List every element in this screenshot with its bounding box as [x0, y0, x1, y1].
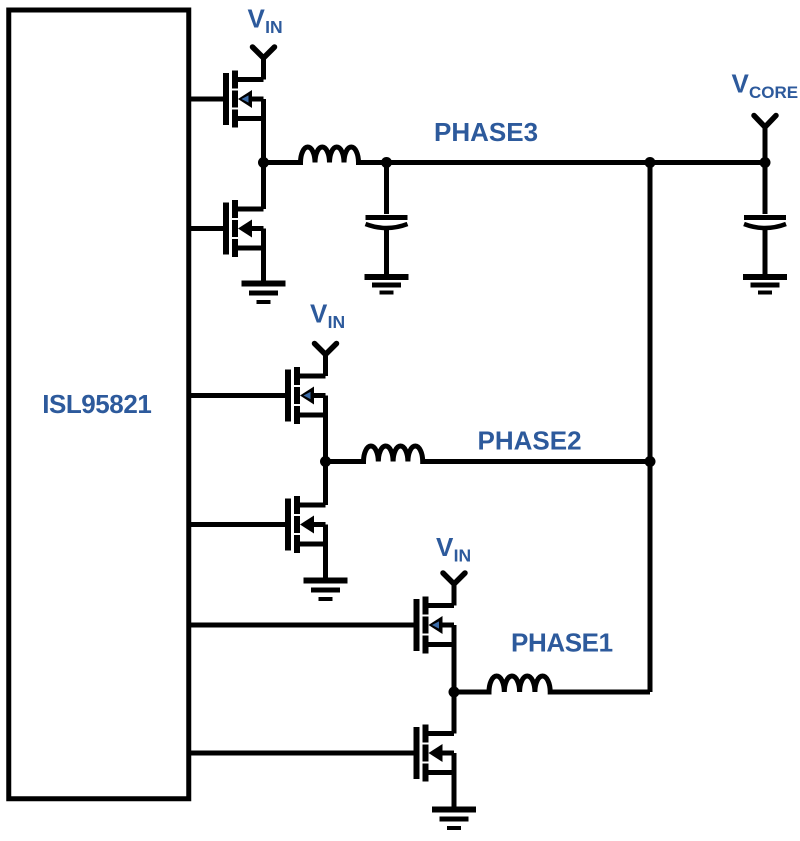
svg-text:IN: IN	[265, 17, 283, 37]
svg-text:V: V	[732, 69, 750, 99]
svg-text:PHASE3: PHASE3	[434, 117, 538, 147]
svg-text:PHASE1: PHASE1	[511, 627, 613, 657]
svg-text:CORE: CORE	[749, 83, 798, 102]
svg-text:V: V	[310, 299, 328, 329]
svg-text:PHASE2: PHASE2	[478, 426, 582, 456]
svg-text:IN: IN	[454, 545, 472, 565]
svg-text:ISL95821: ISL95821	[42, 389, 151, 419]
svg-text:IN: IN	[328, 312, 346, 332]
svg-text:V: V	[248, 4, 266, 34]
svg-text:V: V	[436, 532, 454, 562]
